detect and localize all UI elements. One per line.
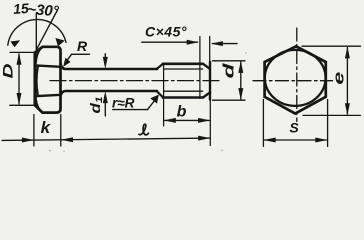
svg-text:b: b — [177, 104, 187, 121]
svg-text:R: R — [77, 38, 88, 54]
svg-text:e: e — [331, 72, 348, 85]
svg-text:r≈R: r≈R — [112, 96, 135, 111]
svg-text:k: k — [41, 118, 52, 137]
svg-text:D: D — [0, 64, 16, 79]
svg-text:d: d — [221, 62, 238, 78]
svg-text:S: S — [289, 120, 299, 136]
svg-text:C×45°: C×45° — [145, 24, 187, 40]
svg-text:~30°: ~30° — [27, 1, 61, 20]
